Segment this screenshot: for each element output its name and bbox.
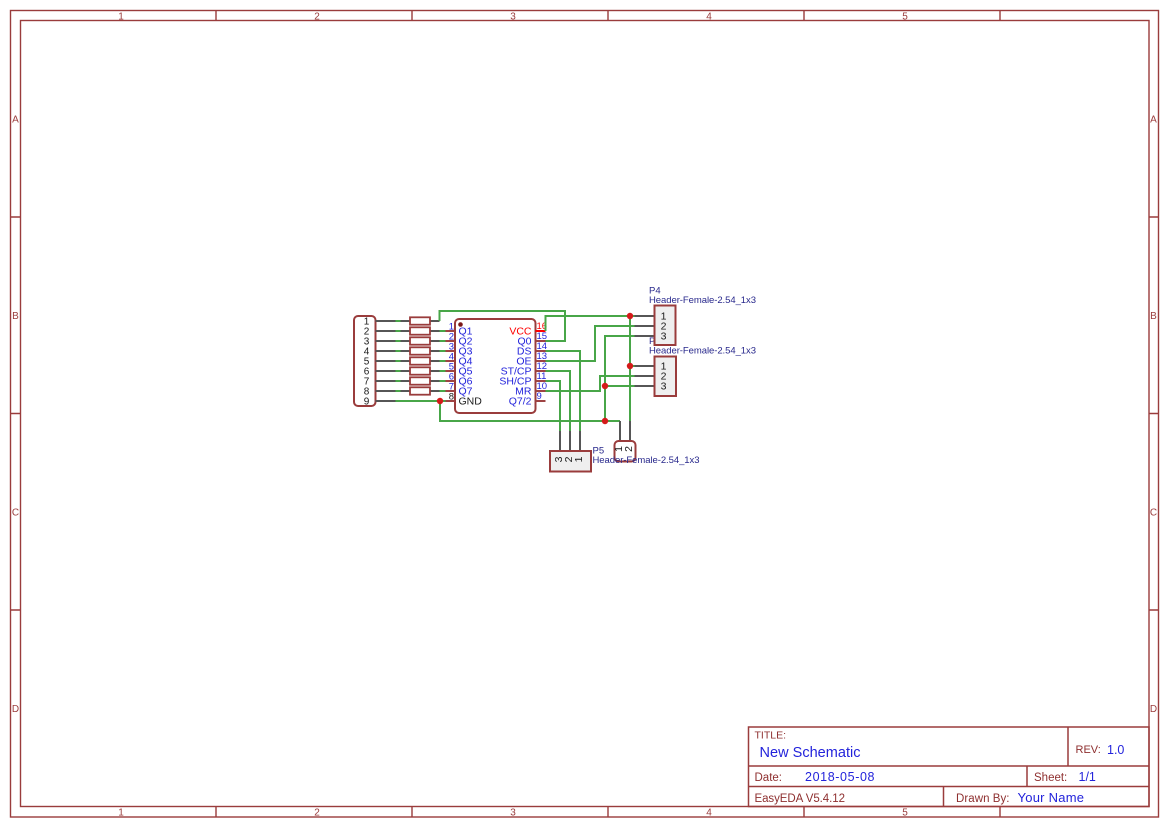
svg-text:8: 8 [449, 392, 454, 403]
wire VCC pin16 to P4.1 [546, 316, 635, 331]
resistor R6 [401, 367, 440, 374]
wire ST/CP pin12 to P5.2 [546, 371, 571, 431]
svg-text:Your Name: Your Name [1018, 790, 1085, 805]
svg-text:Date:: Date: [755, 772, 783, 784]
header P4 body [655, 306, 676, 346]
U1 right pin numbers 16-9 [537, 321, 548, 402]
wire SH/CP pin11 to P5.3 [546, 381, 561, 431]
U1 right pin names [499, 326, 532, 408]
wire GND rail to P6.1 [440, 401, 620, 421]
svg-text:2018-05-08: 2018-05-08 [805, 770, 875, 784]
svg-text:1.0: 1.0 [1107, 743, 1124, 757]
svg-text:1: 1 [118, 808, 124, 819]
wire segments J1 to resistors [396, 321, 401, 391]
svg-text:GND: GND [459, 396, 483, 408]
header P6 body [615, 441, 636, 462]
svg-text:Header-Female-2.54_1x3: Header-Female-2.54_1x3 [649, 346, 756, 357]
U1 pin 16 stub (VCC, red) [536, 330, 546, 332]
U1 right pin stubs 15-9 [536, 341, 546, 401]
wire MR pin10 to P3.2 [546, 376, 635, 391]
frame column ticks top [216, 11, 1000, 21]
wire P4.3 to GND rail [605, 336, 635, 421]
header P5 pin stubs [560, 431, 580, 451]
svg-text:TITLE:: TITLE: [755, 730, 787, 742]
svg-text:3: 3 [661, 381, 667, 393]
header P3 label (partially hidden) [649, 336, 756, 357]
junction node 5 [602, 418, 608, 424]
svg-text:Header-Female-2.54_1x3: Header-Female-2.54_1x3 [649, 295, 756, 306]
junction node 4 [602, 383, 608, 389]
header J1 pin stubs [376, 321, 396, 401]
frame column ticks bottom [216, 807, 1000, 818]
junction node 3 [627, 363, 633, 369]
header P4 pin numbers [661, 311, 667, 343]
svg-text:Header-Female-2.54_1x3: Header-Female-2.54_1x3 [593, 455, 700, 466]
resistor R5 [401, 357, 440, 364]
header P4 label [649, 286, 756, 307]
svg-text:A: A [12, 115, 19, 126]
wire OE pin13 to P4.2 [546, 326, 635, 361]
svg-text:A: A [1150, 115, 1157, 126]
svg-text:1: 1 [118, 12, 124, 23]
wire VCC to P3.1 [630, 365, 635, 367]
junction node 2 [627, 313, 633, 319]
wire J1 pin9 to U1 GND [396, 400, 446, 402]
wire R1 to Q0 (pin15) [440, 311, 566, 341]
svg-text:1/1: 1/1 [1079, 770, 1096, 784]
svg-text:New Schematic: New Schematic [760, 745, 861, 761]
header P5 label [593, 446, 700, 467]
svg-text:9: 9 [364, 397, 370, 408]
svg-text:1: 1 [573, 456, 585, 462]
svg-text:2: 2 [314, 808, 320, 819]
header P3 pin stubs [635, 366, 655, 386]
header P5 body [550, 451, 591, 472]
svg-text:5: 5 [902, 808, 908, 819]
svg-text:Q7/2: Q7/2 [509, 396, 532, 408]
frame column numbers top [118, 12, 908, 23]
svg-text:EasyEDA V5.4.12: EasyEDA V5.4.12 [755, 793, 846, 805]
wire VCC vertical rail [629, 316, 631, 421]
svg-text:3: 3 [661, 331, 667, 343]
svg-text:9: 9 [537, 391, 542, 402]
frame row letters left [12, 115, 19, 716]
svg-text:4: 4 [706, 808, 712, 819]
frame row ticks left [11, 217, 21, 610]
svg-text:C: C [12, 508, 19, 519]
svg-text:B: B [12, 311, 19, 322]
svg-text:3: 3 [510, 808, 516, 819]
resistor R3 [401, 337, 440, 344]
svg-text:3: 3 [510, 12, 516, 23]
header P3 pin numbers [661, 361, 667, 393]
svg-text:5: 5 [902, 12, 908, 23]
resistor R2 [401, 327, 440, 334]
header P3 body [655, 357, 677, 397]
U1 pin 1 indicator dot [458, 322, 463, 327]
header P6 pin stubs [620, 421, 630, 441]
header J1 1x9 connector body [354, 316, 376, 406]
title block outline [749, 727, 1150, 807]
header J1 pin numbers 1-9 [364, 317, 370, 408]
svg-text:4: 4 [706, 12, 712, 23]
svg-text:B: B [1150, 311, 1157, 322]
svg-text:D: D [12, 704, 19, 715]
svg-text:2: 2 [314, 12, 320, 23]
junction node 1 [437, 398, 443, 404]
U1 left pin numbers [449, 322, 454, 403]
wire segments resistors to U1 [440, 331, 446, 391]
wire GND to P3.3 [605, 385, 635, 387]
frame column numbers bottom [118, 808, 908, 819]
svg-text:Drawn By:: Drawn By: [956, 793, 1010, 805]
svg-text:Sheet:: Sheet: [1034, 772, 1067, 784]
svg-text:C: C [1150, 508, 1157, 519]
svg-text:D: D [1150, 704, 1157, 715]
U1 left pin names Q1-Q7 GND [459, 326, 483, 408]
header P4 pin stubs [635, 316, 655, 336]
wire DS pin14 to P5.1 [546, 351, 581, 431]
resistor R7 [401, 377, 440, 384]
U1 left pin stubs 1-8 [446, 331, 456, 401]
resistor R1 [401, 317, 440, 324]
header P5 pin numbers (rotated) [553, 456, 585, 462]
resistor R4 [401, 347, 440, 354]
svg-text:2: 2 [623, 446, 635, 452]
header P6 pin numbers (rotated) [613, 446, 635, 452]
frame row letters right [1150, 115, 1157, 716]
resistor R8 [401, 387, 440, 394]
svg-text:REV:: REV: [1076, 744, 1101, 756]
op IC U1 74HC595 body [455, 319, 536, 413]
frame row ticks right [1149, 217, 1159, 610]
